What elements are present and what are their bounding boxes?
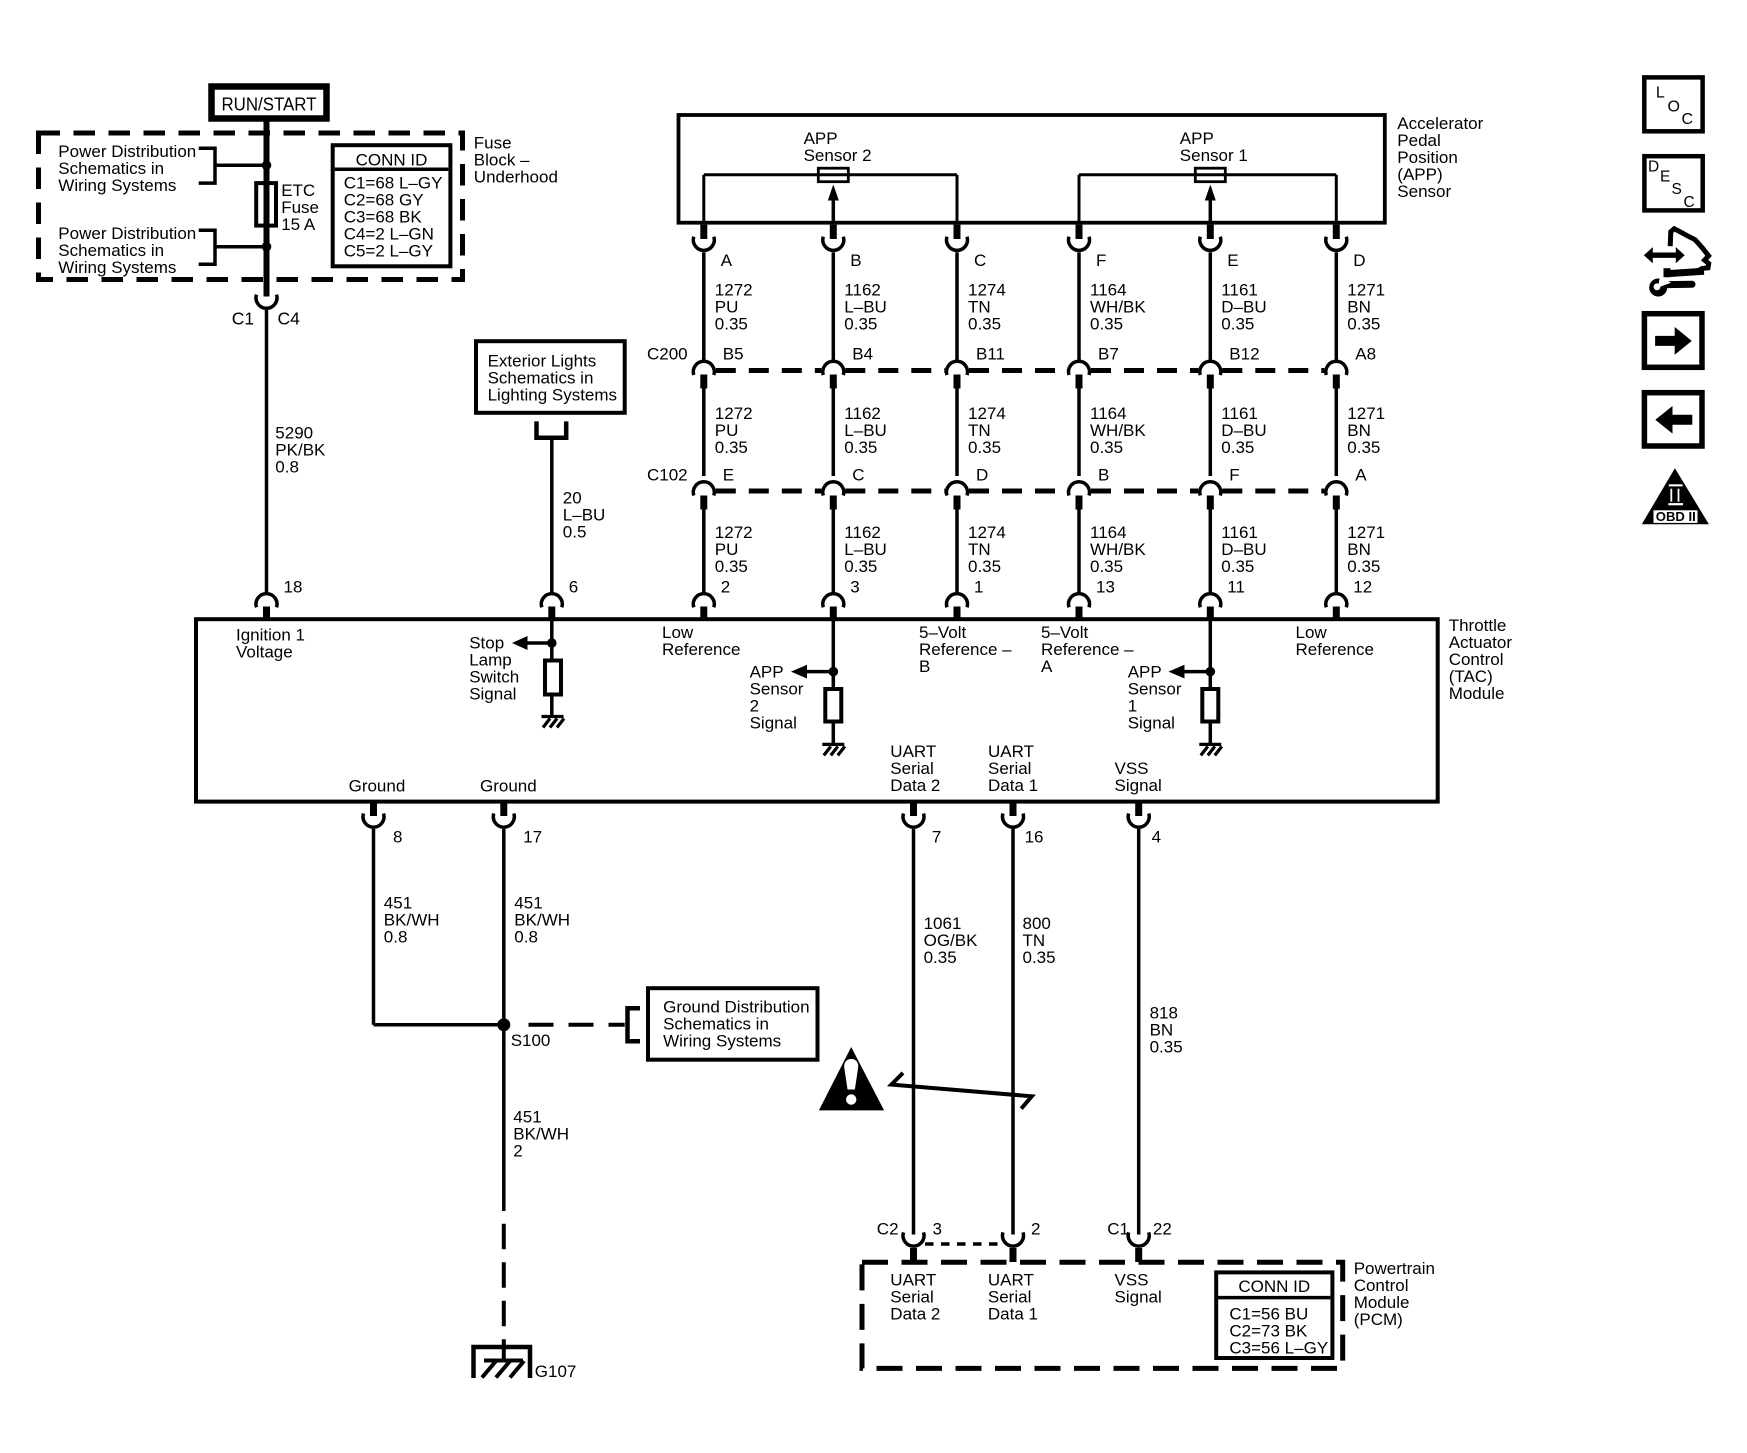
connector pin 17 TAC module bottom (493, 801, 514, 827)
svg-text:22: 22 (1153, 1219, 1172, 1238)
wire label 1162 L–BU 0.35 (middle) (844, 404, 887, 457)
connector pin C APP sensor (946, 225, 967, 251)
label Ground (pin 8) (349, 777, 406, 796)
label pin 8 bottom (393, 828, 402, 847)
label pin 13 (1096, 577, 1115, 596)
splice S100 (497, 1018, 510, 1031)
label C4 (278, 309, 301, 329)
svg-text:UARTSerialData 2: UARTSerialData 2 (890, 1270, 940, 1323)
svg-text:1: 1 (974, 577, 983, 596)
connector pin 16 TAC module bottom (1003, 801, 1024, 827)
svg-text:B7: B7 (1098, 345, 1119, 364)
svg-text:S100: S100 (511, 1031, 551, 1050)
label pin 1 (974, 577, 983, 596)
wire TAC pin11 internal (1206, 620, 1216, 690)
wire C200 B11 to C102 (955, 389, 959, 477)
label terminal B7 (1098, 345, 1119, 364)
label pin A (721, 251, 733, 270)
svg-text:O: O (1668, 99, 1680, 116)
label terminal B11 (976, 345, 1005, 364)
svg-text:C200: C200 (647, 345, 688, 364)
connector pin B APP sensor (823, 225, 844, 251)
label terminal A8 (1355, 345, 1376, 364)
wire C200 A8 to C102 (1335, 389, 1339, 477)
label UART Serial Data 1 (TAC) (988, 742, 1038, 795)
wire label 1162 L–BU 0.35 (lower) (844, 523, 887, 576)
wire label 1164 WH/BK 0.35 (upper) (1090, 281, 1146, 334)
label Low Reference (left) (662, 623, 740, 659)
svg-text:RUN/START: RUN/START (222, 94, 317, 114)
wire APP pin D to C200 (1335, 252, 1339, 360)
label APP Sensor 2 Signal with arrow (750, 662, 834, 732)
connector C200 terminal B11 (946, 361, 967, 388)
svg-text:8: 8 (393, 828, 402, 847)
svg-text:C102: C102 (647, 466, 688, 485)
connector pin 3 TAC module top (823, 594, 844, 620)
label pin 7 bottom (932, 828, 941, 847)
connector C1/C4 fuse block to harness (256, 295, 277, 592)
connector C200 terminal B5 (693, 361, 714, 388)
wire TAC pin6 internal (547, 620, 557, 661)
svg-text:CONN ID: CONN ID (356, 150, 428, 169)
label S100 (511, 1031, 551, 1050)
svg-text:UARTSerialData 1: UARTSerialData 1 (988, 1270, 1038, 1323)
label pin 22 (1153, 1219, 1172, 1238)
wire ignition feed from RUN/START through fuse (264, 118, 270, 297)
svg-text:A: A (1355, 466, 1367, 485)
wire label 1161 D–BU 0.35 (upper) (1221, 281, 1266, 334)
wire resistor to internal ground 3 (1209, 722, 1213, 745)
label pin 11 (1227, 577, 1245, 596)
wire C102 F to TAC module (1209, 510, 1213, 593)
label VSS Signal (TAC) (1115, 759, 1162, 795)
connector C102 terminal A (1326, 482, 1347, 510)
resistor APP sensor 1 signal (1202, 689, 1218, 722)
label UART Serial Data 2 (TAC) (890, 742, 940, 795)
dashed link pin3 to pin2 (925, 1242, 1001, 1246)
APP sensor assembly box (679, 115, 1385, 223)
svg-text:17: 17 (523, 828, 542, 847)
wire VSS signal pin4 to PCM (1137, 829, 1141, 1235)
wire APP pin C to C200 (955, 252, 959, 360)
wire label 1272 PU 0.35 (upper) (715, 281, 753, 334)
svg-text:B5: B5 (723, 345, 744, 364)
connector pin E APP sensor (1200, 225, 1221, 251)
svg-text:6: 6 (569, 577, 578, 596)
wire label 1061 OG/BK 0.35 (924, 914, 979, 967)
label terminal C (852, 466, 864, 485)
connector pin 1 TAC module top (946, 594, 967, 620)
label pin 12 (1353, 577, 1372, 596)
wire S100 to G107 solid part (502, 1025, 506, 1211)
connector C200 terminal B7 (1069, 361, 1090, 388)
label pin 6 (569, 577, 578, 596)
svg-text:F: F (1096, 251, 1106, 270)
wire label 1274 TN 0.35 (upper) (968, 281, 1006, 334)
wire C200 B7 to C102 (1077, 389, 1081, 477)
label C1 (232, 309, 254, 329)
svg-text:C: C (1684, 194, 1695, 211)
wire label 1272 PU 0.35 (lower) (715, 523, 753, 576)
wiper arrow APP sensor 1 (1205, 185, 1216, 223)
wire TAC pin3 internal (829, 620, 839, 690)
dashed reference link S100 to ground distribution (529, 1008, 641, 1041)
connector C200 terminal B12 (1200, 361, 1221, 388)
label Stop Lamp Switch Signal with arrow (469, 634, 552, 704)
connector pin 11 TAC module top (1200, 594, 1221, 620)
label terminal B12 (1229, 345, 1259, 364)
wire C200 B4 to C102 (832, 389, 836, 477)
ground internal 1 (542, 717, 565, 728)
wire stop lamp switch signal to TAC pin 6 (550, 438, 554, 592)
wire C200 B5 to C102 (702, 389, 706, 477)
fuse block underhood dashed box (39, 133, 463, 280)
svg-text:C4: C4 (278, 309, 301, 329)
wire label 1162 L–BU 0.35 (upper) (844, 281, 887, 334)
svg-text:CONN ID: CONN ID (1238, 1277, 1310, 1296)
label 5-Volt Reference - B (919, 623, 1012, 676)
wire UART serial data 1 pin16 to PCM (1011, 829, 1015, 1235)
callout arrow crossing UART wires (891, 1073, 1031, 1109)
svg-text:12: 12 (1353, 577, 1372, 596)
label APP Sensor 2 (804, 129, 872, 165)
label terminal B (1098, 466, 1109, 485)
wire APP pin F to C200 (1077, 252, 1081, 360)
wire label 1161 D–BU 0.35 (lower) (1221, 523, 1266, 576)
svg-text:B: B (850, 251, 861, 270)
label pin B (850, 251, 861, 270)
svg-text:18: 18 (284, 577, 303, 596)
svg-text:C: C (1682, 111, 1694, 128)
label 5-Volt Reference - A (1041, 623, 1134, 676)
wire C102 D to TAC module (955, 510, 959, 593)
wire C102 B to TAC module (1077, 510, 1081, 593)
wire label 20 L-BU 0.5 (563, 489, 606, 542)
svg-text:F: F (1229, 466, 1239, 485)
connector pin 7 TAC module bottom (903, 801, 924, 827)
connector C102 terminal D (946, 482, 967, 510)
label Low Reference (right) (1296, 623, 1374, 659)
svg-text:11: 11 (1227, 577, 1245, 596)
wire ground pin 8 to S100 (374, 829, 504, 1025)
svg-text:OBD II: OBD II (1656, 509, 1696, 524)
svg-text:3: 3 (933, 1219, 942, 1238)
wire label 1272 PU 0.35 (middle) (715, 404, 753, 457)
label G107 (535, 1362, 577, 1381)
svg-text:2: 2 (1031, 1219, 1040, 1238)
icon DESC box (1644, 156, 1702, 211)
svg-text:ETCFuse15 A: ETCFuse15 A (281, 181, 319, 234)
Powertrain Control Module PCM dashed box (862, 1262, 1343, 1368)
resistor stop lamp pull-up (545, 661, 561, 695)
node ground distribution reference box (648, 988, 818, 1059)
svg-text:B: B (1098, 466, 1109, 485)
wire label 451 BK/WH 0.8 (pin 8) (384, 894, 440, 947)
svg-text:C1: C1 (232, 309, 254, 329)
potentiometer APP Sensor 1 (1079, 168, 1336, 223)
wire label 1271 BN 0.35 (lower) (1347, 523, 1385, 576)
label terminal B5 (723, 345, 744, 364)
svg-text:7: 7 (932, 828, 941, 847)
label pin 2 (1031, 1219, 1040, 1238)
wire UART serial data 2 pin7 to PCM (912, 829, 916, 1235)
wire label 800 TN 0.35 (1023, 914, 1056, 967)
wiper arrow APP sensor 2 (828, 185, 839, 223)
wire label 1164 WH/BK 0.35 (lower) (1090, 523, 1146, 576)
node exterior lights reference box (476, 341, 625, 413)
connector pin 2 TAC module top (693, 594, 714, 620)
svg-text:B11: B11 (976, 345, 1005, 364)
svg-text:D: D (1353, 251, 1365, 270)
resistor APP sensor 2 signal (825, 689, 841, 722)
connector pin 2 PCM (1003, 1232, 1024, 1262)
label C1 (PCM) (1107, 1219, 1129, 1238)
warning triangle note symbol (819, 1047, 884, 1110)
wire C102 E to TAC module (702, 510, 706, 593)
label pin F (1096, 251, 1106, 270)
connector pin 12 TAC module top (1326, 594, 1347, 620)
label pin 17 bottom (523, 828, 542, 847)
label pin 2 (721, 577, 730, 596)
label APP Sensor 1 Signal with arrow (1128, 662, 1211, 732)
wire resistor to internal ground 1 (550, 695, 554, 717)
wire APP pin E to C200 (1209, 252, 1213, 360)
svg-text:3: 3 (850, 577, 859, 596)
node power distribution reference 2 (58, 224, 266, 277)
svg-text:B12: B12 (1229, 345, 1259, 364)
connector C102 terminal E (693, 482, 714, 510)
label UART Serial Data 1 (PCM) (988, 1270, 1038, 1323)
wire label 1274 TN 0.35 (lower) (968, 523, 1006, 576)
svg-text:ThrottleActuatorControl(TAC)Mo: ThrottleActuatorControl(TAC)Module (1449, 616, 1513, 703)
connector pin 18 TAC module top (256, 594, 277, 620)
dashed connector line C102 (716, 489, 1325, 494)
wire APP pin A to C200 (702, 252, 706, 360)
svg-text:Ground: Ground (480, 777, 537, 796)
wire label 1271 BN 0.35 (middle) (1347, 404, 1385, 457)
connector C200 terminal B4 (823, 361, 844, 388)
svg-text:E: E (1660, 169, 1670, 186)
svg-text:Ground: Ground (349, 777, 406, 796)
svg-text:C: C (852, 466, 864, 485)
connector C102 terminal C (823, 482, 844, 510)
wire label 1271 BN 0.35 (upper) (1347, 281, 1385, 334)
connector pin D APP sensor (1326, 225, 1347, 251)
label terminal A (1355, 466, 1367, 485)
label Ground (pin 17) (480, 777, 537, 796)
label VSS Signal (PCM) (1115, 1270, 1162, 1306)
svg-text:D: D (1648, 159, 1659, 176)
label C2 (877, 1219, 899, 1238)
svg-text:C: C (974, 251, 986, 270)
wire S100 to G107 dashed part (502, 1224, 506, 1361)
label APP Sensor 1 (1180, 129, 1248, 165)
connector pin A APP sensor (693, 225, 714, 251)
ground internal 3 (1199, 744, 1222, 755)
svg-text:G107: G107 (535, 1362, 577, 1381)
label terminal D (976, 466, 988, 485)
dashed connector line C200 (716, 368, 1325, 373)
label terminal B4 (852, 345, 873, 364)
svg-text:A: A (721, 251, 733, 270)
label connector C102 (647, 466, 688, 485)
label Fuse Block - Underhood (474, 133, 558, 186)
wire C200 B12 to C102 (1209, 389, 1213, 477)
wire resistor to internal ground 2 (832, 722, 836, 745)
icon LOC box (1644, 77, 1702, 131)
ground internal 2 (822, 744, 845, 755)
icon OBD II triangle (1642, 468, 1709, 524)
Throttle Actuator Control TAC module box (196, 619, 1438, 801)
node power distribution reference 1 (58, 142, 266, 195)
connector C102 terminal B (1069, 482, 1090, 510)
label pin D (1353, 251, 1365, 270)
connector C102 terminal F (1200, 482, 1221, 510)
label Throttle Actuator Control (TAC) Module (1449, 616, 1513, 703)
icon arrow left box (1644, 393, 1702, 446)
wire label 1164 WH/BK 0.35 (middle) (1090, 404, 1146, 457)
wire C102 A to TAC module (1335, 510, 1339, 593)
svg-text:C1: C1 (1107, 1219, 1129, 1238)
label pin 3 (850, 577, 859, 596)
potentiometer APP Sensor 2 (704, 168, 957, 223)
svg-text:A8: A8 (1355, 345, 1376, 364)
wire label 1274 TN 0.35 (middle) (968, 404, 1006, 457)
wire ground pin 17 to S100 (502, 829, 506, 1025)
label pin 16 bottom (1025, 828, 1044, 847)
ground G107 chassis symbol (474, 1347, 531, 1378)
wire C102 C to TAC module (832, 510, 836, 593)
label Ignition 1 Voltage (236, 625, 305, 661)
label connector C200 (647, 345, 688, 364)
label UART Serial Data 2 (PCM) (890, 1270, 940, 1323)
connector pin 3 PCM (C2) (903, 1232, 924, 1262)
connector table CONN ID (fuse block) (333, 145, 451, 266)
label terminal E (723, 466, 734, 485)
label ETC Fuse 15 A (281, 181, 319, 234)
wire label 451 BK/WH 2 (513, 1107, 569, 1160)
svg-text:S: S (1672, 181, 1682, 198)
label terminal F (1229, 466, 1239, 485)
connector pin 6 TAC module top (541, 594, 562, 620)
wire label 1161 D–BU 0.35 (middle) (1221, 404, 1266, 457)
svg-text:16: 16 (1025, 828, 1044, 847)
svg-text:2: 2 (721, 577, 730, 596)
wire APP pin B to C200 (832, 252, 836, 360)
svg-text:UARTSerialData 2: UARTSerialData 2 (890, 742, 940, 795)
wire label 5290 PK/BK 0.8 (275, 423, 326, 476)
connector pin 13 TAC module top (1069, 594, 1090, 620)
node RUN/START voltage source (212, 87, 327, 119)
svg-text:13: 13 (1096, 577, 1115, 596)
label Accelerator Pedal Position (APP) Sensor (1397, 114, 1483, 201)
svg-text:C2: C2 (877, 1219, 899, 1238)
icon adjust hand and wrench (1644, 229, 1709, 297)
fuse F1 ETC Fuse 15 A (256, 183, 276, 226)
icon arrow right box (1644, 314, 1702, 368)
label pin 4 bottom (1152, 828, 1161, 847)
label pin 18 (284, 577, 303, 596)
connector pin 8 TAC module bottom (363, 801, 384, 827)
junction dot upper feed (262, 161, 272, 171)
label Powertrain Control Module (PCM) (1354, 1259, 1435, 1329)
svg-text:D: D (976, 466, 988, 485)
wire label 818 BN 0.35 (1150, 1003, 1183, 1056)
svg-text:E: E (723, 466, 734, 485)
connector stub below exterior lights box (537, 421, 567, 437)
wire label 451 BK/WH 0.8 (pin 17) (514, 894, 570, 947)
connector table CONN ID (PCM) (1216, 1272, 1332, 1358)
label pin C (974, 251, 986, 270)
label pin E (1227, 251, 1238, 270)
svg-text:B4: B4 (852, 345, 873, 364)
connector pin F APP sensor (1069, 225, 1090, 251)
junction dot lower feed (262, 242, 272, 252)
label pin 3 (933, 1219, 942, 1238)
svg-text:E: E (1227, 251, 1238, 270)
svg-text:4: 4 (1152, 828, 1161, 847)
connector pin 22 PCM (C1) (1128, 1232, 1149, 1262)
connector C200 terminal A8 (1326, 361, 1347, 388)
svg-text:L: L (1656, 85, 1665, 102)
connector pin 4 TAC module bottom (1128, 801, 1149, 827)
svg-text:UARTSerialData 1: UARTSerialData 1 (988, 742, 1038, 795)
